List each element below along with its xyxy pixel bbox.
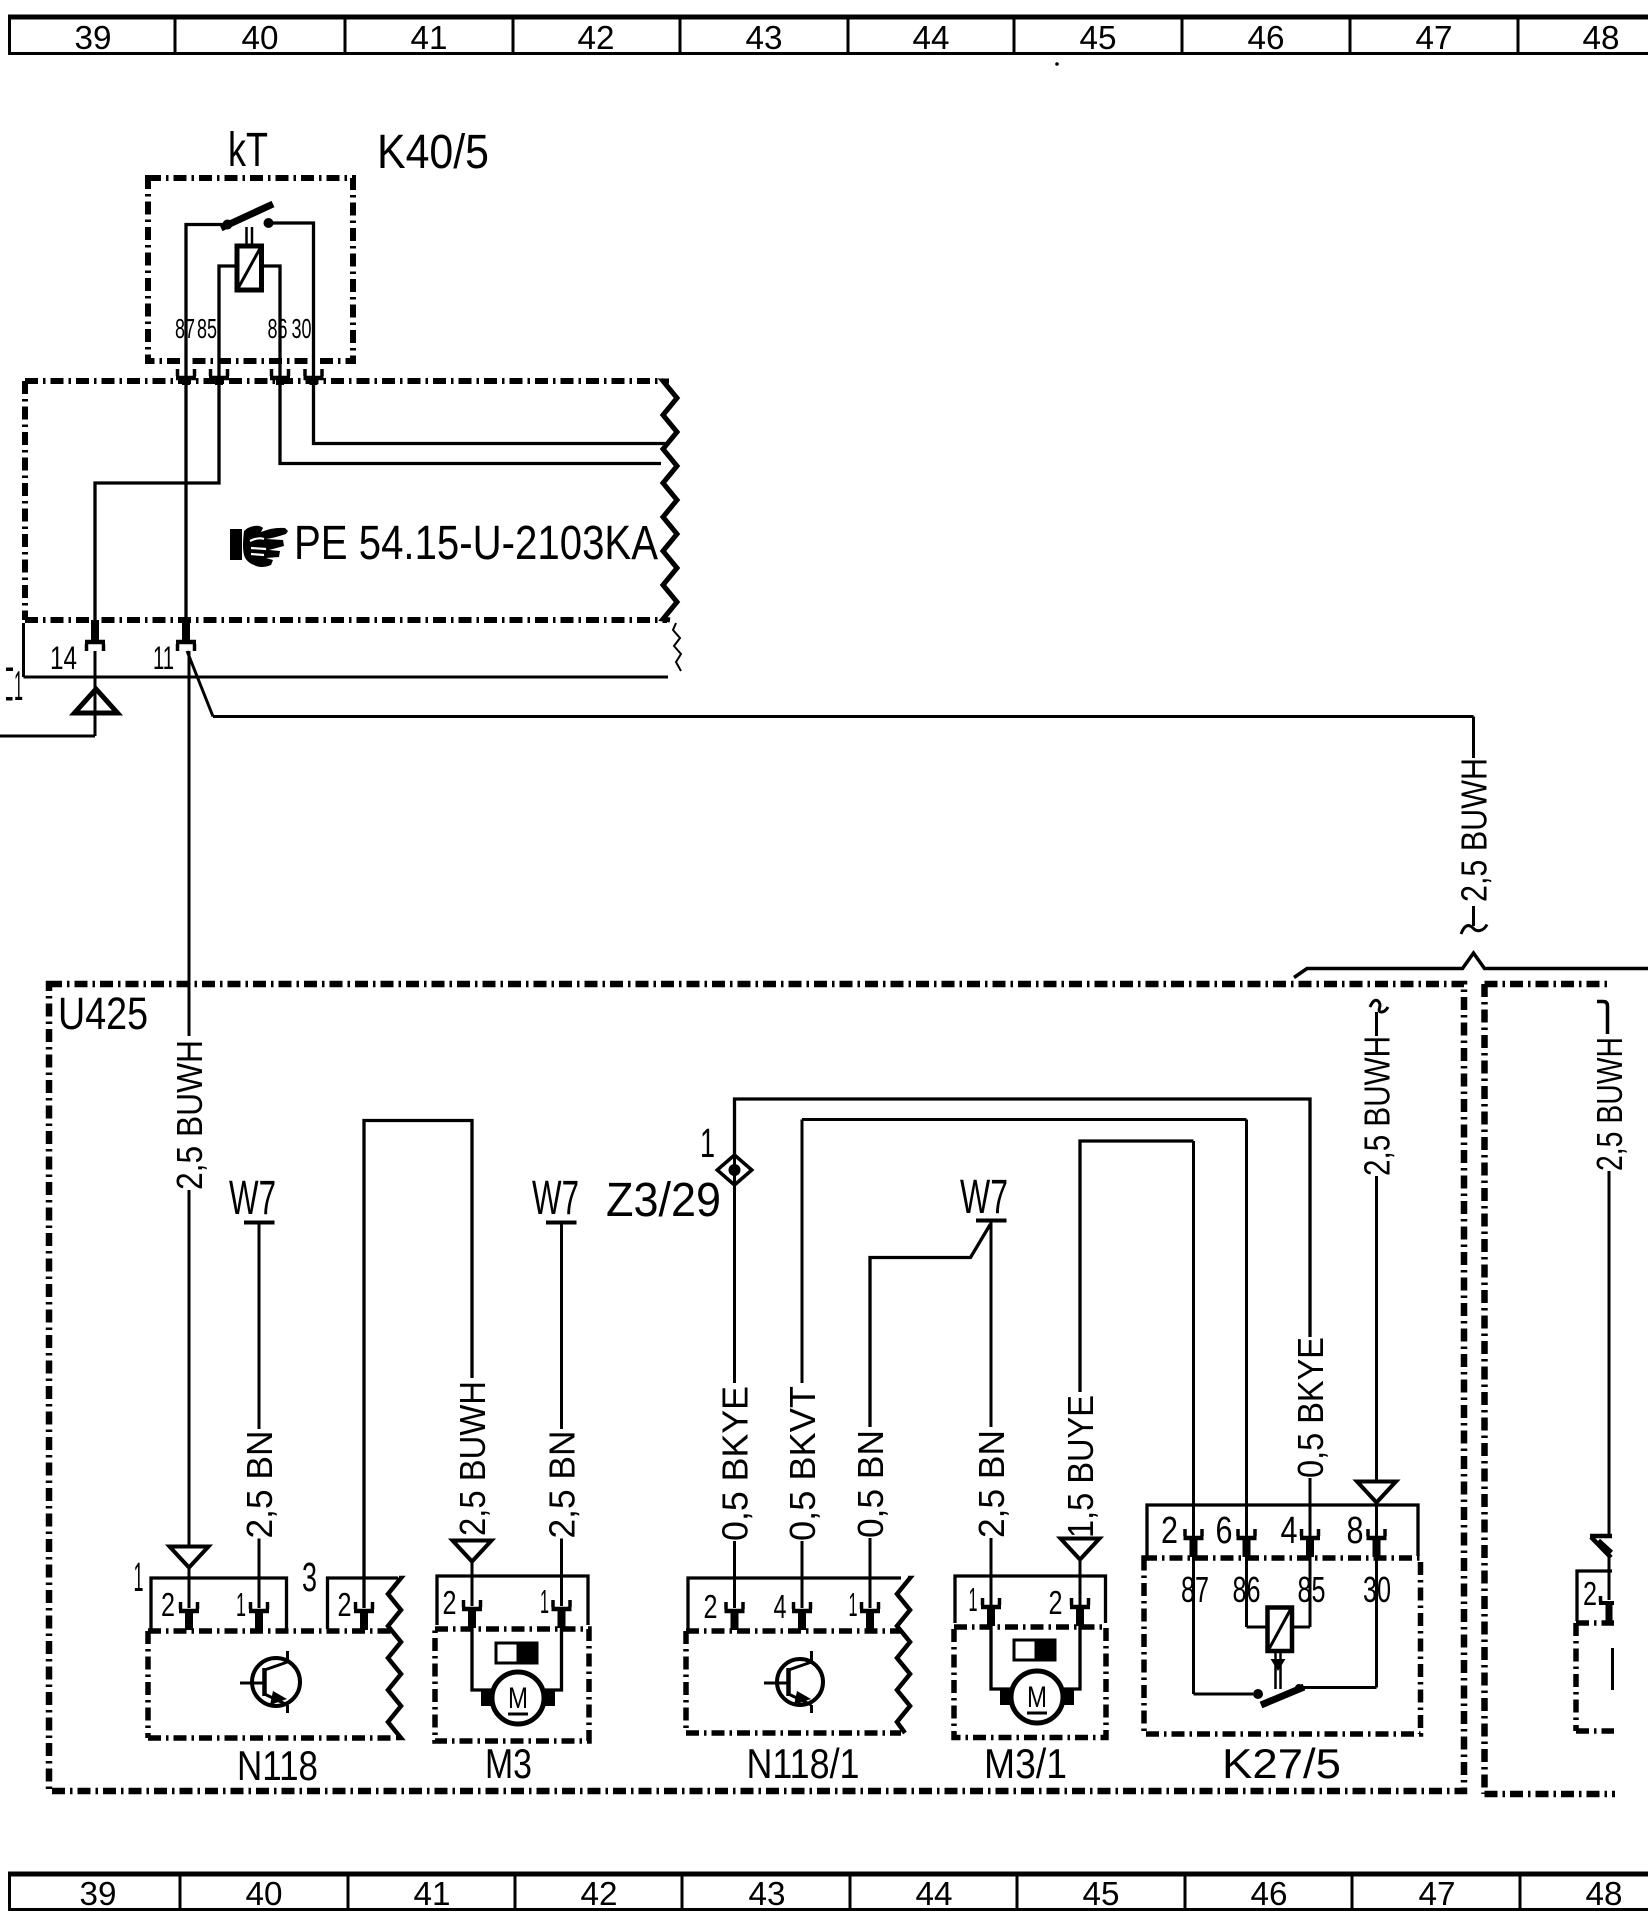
svg-text:0,5 BKYE: 0,5 BKYE (1290, 1337, 1331, 1478)
svg-text:M: M (1027, 1681, 1047, 1714)
M3/1 pin 2 symbol (1070, 1605, 1090, 1610)
continuation arrow above K27/5 pin 8 (1357, 1482, 1396, 1503)
svg-text:1: 1 (236, 1586, 246, 1623)
torn edge of N118/1 box (897, 1578, 910, 1733)
K27/5 pin 2 symbol (1184, 1536, 1204, 1541)
svg-text:W7: W7 (960, 1171, 1008, 1224)
wire N118/1 pin 4 to K27/5 pin 6 (801, 1120, 804, 1384)
top coordinate ruler (8, 15, 1648, 20)
svg-text:2,5 BN: 2,5 BN (971, 1430, 1012, 1538)
K27/5 relay box (1144, 1558, 1421, 1734)
svg-text:43: 43 (746, 19, 783, 56)
clipped pin symbol (1599, 1601, 1614, 1605)
svg-text:kT: kT (228, 124, 268, 177)
svg-text:44: 44 (916, 1875, 953, 1912)
pin 30 connector symbol (304, 376, 324, 381)
N118/1 pin 4 symbol (792, 1609, 812, 1614)
svg-text:4: 4 (774, 1588, 787, 1625)
svg-text:2,5 BN: 2,5 BN (542, 1431, 583, 1539)
second assembly box bottom edge (1485, 1791, 1616, 1798)
svg-text:2,5 BUWH: 2,5 BUWH (1357, 1036, 1398, 1176)
K27/5 switch contacts (1194, 1693, 1254, 1696)
K40/5 switch contact dot right (264, 218, 274, 228)
svg-text:47: 47 (1419, 1875, 1456, 1912)
pin 85 connector symbol (209, 376, 229, 381)
K27/5 armature (1274, 1651, 1277, 1689)
svg-text:44: 44 (913, 19, 950, 56)
svg-text:N118/1: N118/1 (747, 1740, 860, 1787)
second assembly box left edge (1481, 984, 1488, 1794)
wire N118/1 pin 1 from W7 (870, 1224, 991, 1427)
transistor symbol in N118/1 (777, 1659, 823, 1705)
svg-text:41: 41 (411, 19, 448, 56)
M3/1 internal wires (991, 1626, 1010, 1689)
svg-text:2,5 BN: 2,5 BN (239, 1431, 280, 1539)
pin 86 connector symbol (270, 376, 290, 381)
K40/5 armature linkage (245, 227, 248, 247)
wire pin 86 inside PE box (280, 385, 661, 464)
K27/5 connector box (1147, 1505, 1418, 1556)
svg-text:2: 2 (704, 1588, 718, 1625)
svg-text:2: 2 (1049, 1584, 1063, 1621)
clipped component internal line (1611, 1648, 1614, 1690)
torn edge of PE box (663, 381, 677, 620)
clipped component box (1576, 1620, 1614, 1626)
svg-text:45: 45 (1083, 1875, 1120, 1912)
wire coil to pin 85 (219, 266, 237, 385)
svg-text:1: 1 (700, 1120, 715, 1166)
distribution brace over U425 (1294, 953, 1648, 978)
svg-text:43: 43 (749, 1875, 786, 1912)
svg-text:W7: W7 (229, 1172, 276, 1225)
svg-text:M3/1: M3/1 (984, 1740, 1067, 1787)
svg-text:40: 40 (242, 19, 279, 56)
K40/5 switch blade (221, 204, 273, 228)
relay K40/5 box (148, 178, 353, 361)
wire Z3/29 to K27/5 pin 4 (735, 1099, 1311, 1337)
pin 2 symbol of connector 3 (354, 1609, 374, 1614)
svg-text:0,5 BKVT: 0,5 BKVT (782, 1386, 823, 1541)
wire to page edge left (0, 735, 95, 738)
svg-text:M: M (508, 1682, 528, 1715)
N118 connector box 1 (151, 1578, 287, 1629)
clipped connector box (1577, 1571, 1612, 1621)
pump symbol in M3/1 (1014, 1640, 1055, 1660)
M3 pin 2 symbol (462, 1607, 482, 1612)
svg-text:1: 1 (134, 1554, 144, 1600)
N118/1 component box (686, 1628, 901, 1634)
svg-text:Z3/29: Z3/29 (606, 1174, 721, 1227)
wire to clipped component (1608, 1171, 1611, 1536)
wire corner into second box (1597, 1002, 1608, 1035)
continuation arrow above M3/1 pin 2 (1061, 1539, 1100, 1560)
svg-text:6: 6 (1216, 1510, 1233, 1552)
svg-text:48: 48 (1583, 19, 1620, 56)
wire switch to pin 30 (269, 223, 314, 385)
K27/5 pin 6 symbol (1237, 1536, 1257, 1541)
svg-text:42: 42 (578, 19, 615, 56)
pump symbol in M3 (496, 1643, 537, 1663)
svg-text:39: 39 (75, 19, 112, 56)
svg-text:1: 1 (14, 662, 23, 709)
svg-text:14: 14 (50, 640, 77, 676)
continuation arrow above M3 pin 2 (453, 1541, 492, 1562)
pin 2 symbol (179, 1609, 199, 1614)
wire coil to pin 86 (262, 266, 281, 385)
U425 assembly box (49, 984, 1464, 1791)
svg-text:M3: M3 (485, 1740, 532, 1787)
wire K27/5 pin 8 with gauge symbol (1370, 1000, 1388, 1012)
K27/5 pin 8 symbol (1367, 1536, 1387, 1541)
svg-text:46: 46 (1248, 19, 1285, 56)
page-edge frame line (22, 623, 25, 677)
svg-text:U425: U425 (58, 988, 148, 1039)
svg-text:2: 2 (443, 1584, 457, 1621)
svg-text:41: 41 (414, 1875, 451, 1912)
wire Z3/29 to N118/1 pin 2 (733, 1099, 736, 1383)
svg-text:3: 3 (302, 1554, 317, 1600)
svg-text:2,5 BUWH: 2,5 BUWH (169, 1040, 210, 1190)
pointing hand icon (230, 526, 288, 567)
pin 14 connector symbol (85, 640, 105, 645)
stray dot (1055, 62, 1059, 66)
N118/1 connector box (688, 1578, 901, 1629)
pin 11 connector symbol (176, 640, 196, 645)
continuation arrow above N118 pin 2 (170, 1547, 209, 1568)
svg-text:2: 2 (161, 1586, 175, 1623)
clipped continuation arrow (1590, 1534, 1612, 1539)
second assembly box top edge (1485, 981, 1610, 988)
wire N118 pin 2/3 to M3 pin 2 (364, 1121, 472, 1609)
wire pin 11 branch diagonal (187, 651, 213, 717)
K27/5 internal wires from pins (1192, 1557, 1195, 1694)
svg-text:46: 46 (1251, 1875, 1288, 1912)
wire M3/1 pin 2 to K27/5 pin 2 (1080, 1141, 1194, 1392)
svg-text:4: 4 (1281, 1510, 1298, 1552)
svg-text:87: 87 (175, 313, 195, 344)
svg-text:2,5 BUWH: 2,5 BUWH (1589, 1037, 1630, 1171)
long feed wire 2,5 BUWH to right (213, 715, 1474, 718)
wire-gauge symbol on feed wire (1472, 906, 1475, 926)
transistor symbol in N118 (252, 1658, 300, 1706)
clipped designator .1 at page edge (6, 668, 13, 672)
PE control unit box (25, 378, 663, 384)
svg-text:11: 11 (153, 640, 174, 676)
wire K27/5 pin 2 (1192, 1141, 1195, 1536)
continuation triangle below pin 14 (94, 651, 97, 736)
svg-text:PE 54.15-U-2103KA: PE 54.15-U-2103KA (294, 517, 658, 570)
svg-text:48: 48 (1586, 1875, 1623, 1912)
M3/1 connector box (955, 1576, 1106, 1623)
thin torn edge below PE box (673, 623, 681, 671)
svg-text:N118: N118 (237, 1742, 318, 1789)
wire pin 11 to N118 pin 2 (188, 651, 191, 1036)
K27/5 pin 4 symbol (1300, 1536, 1320, 1541)
K40/5 relay coil (237, 246, 262, 290)
M3 internal wires (472, 1628, 492, 1690)
M3 pin 1 symbol (552, 1607, 572, 1612)
K40/5 switch contact dot left (223, 220, 233, 230)
N118/1 pin 2 symbol (725, 1609, 745, 1614)
svg-text:K27/5: K27/5 (1222, 1740, 1341, 1787)
svg-text:0,5 BN: 0,5 BN (850, 1430, 891, 1538)
motor symbol M3 (492, 1672, 544, 1724)
svg-text:40: 40 (246, 1875, 283, 1912)
wire W7 to M3/1 pin 1 (990, 1221, 993, 1428)
svg-text:2: 2 (338, 1586, 352, 1623)
svg-text:1,5 BUYE: 1,5 BUYE (1060, 1395, 1101, 1538)
torn edge of N118 box (388, 1578, 401, 1738)
pin 1 symbol (249, 1609, 269, 1614)
svg-text:2,5 BUWH: 2,5 BUWH (1454, 758, 1495, 902)
wire W7 to N118 pin 1 (258, 1223, 261, 1430)
svg-text:1: 1 (969, 1581, 978, 1618)
svg-text:1: 1 (540, 1583, 549, 1620)
svg-text:0,5 BKYE: 0,5 BKYE (715, 1386, 756, 1541)
svg-text:K40/5: K40/5 (377, 126, 489, 179)
wire pin 30 inside PE box (314, 385, 666, 444)
svg-text:2: 2 (1161, 1510, 1178, 1552)
svg-text:8: 8 (1347, 1510, 1364, 1552)
wire W7 to M3 pin 1 (560, 1223, 563, 1430)
M3/1 pin 1 symbol (981, 1605, 1001, 1610)
svg-text:2,5 BUWH: 2,5 BUWH (452, 1381, 493, 1536)
M3 component box (435, 1629, 589, 1741)
svg-text:1: 1 (849, 1586, 858, 1623)
wire switch to pin 87 (186, 225, 227, 386)
svg-text:30: 30 (292, 313, 312, 344)
motor symbol M3/1 (1011, 1671, 1063, 1723)
svg-text:86: 86 (268, 313, 288, 344)
wire pin 85 to pin 14 (95, 385, 219, 640)
svg-text:42: 42 (581, 1875, 618, 1912)
svg-text:45: 45 (1080, 19, 1117, 56)
N118 connector box 3 (328, 1578, 399, 1629)
svg-text:39: 39 (80, 1875, 117, 1912)
K27/5 coil (1268, 1608, 1293, 1652)
M3 connector box (437, 1576, 588, 1625)
M3/1 component box (954, 1627, 1106, 1738)
N118/1 pin 1 symbol (860, 1609, 880, 1614)
svg-text:85: 85 (197, 313, 217, 344)
connector sleeve Z3/29 (717, 1155, 752, 1185)
svg-text:W7: W7 (532, 1172, 579, 1225)
pin 87 connector symbol (176, 376, 196, 381)
N118 component box (148, 1628, 392, 1634)
wire pin 87 to pin 11 (184, 385, 187, 640)
svg-text:2: 2 (1583, 1575, 1597, 1612)
svg-text:47: 47 (1416, 19, 1453, 56)
bottom coordinate ruler (8, 1872, 1648, 1877)
